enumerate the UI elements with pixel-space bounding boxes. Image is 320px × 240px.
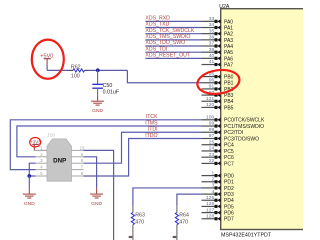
svg-text:0.01uF: 0.01uF — [103, 90, 120, 96]
svg-text:R62: R62 — [71, 64, 81, 70]
svg-text:MSP432E401YTPDT: MSP432E401YTPDT — [221, 233, 272, 239]
svg-text:PA2: PA2 — [224, 32, 233, 38]
svg-text:PA3: PA3 — [224, 38, 233, 44]
svg-text:PC5: PC5 — [224, 149, 234, 155]
svg-text:PD6: PD6 — [224, 211, 234, 217]
svg-text:PC4: PC4 — [224, 143, 234, 149]
svg-text:127: 127 — [206, 207, 214, 213]
svg-text:J10: J10 — [47, 133, 55, 139]
svg-text:PB5: PB5 — [224, 105, 234, 111]
svg-text:PD7: PD7 — [224, 217, 234, 223]
svg-text:PA6: PA6 — [224, 56, 233, 62]
svg-text:4: 4 — [211, 189, 214, 195]
svg-text:22: 22 — [209, 158, 215, 164]
svg-text:PC6: PC6 — [224, 155, 234, 161]
svg-text:GND: GND — [24, 201, 35, 207]
svg-text:120: 120 — [206, 102, 214, 108]
svg-text:PC7: PC7 — [224, 161, 234, 167]
svg-text:XDS_TDO_SWO: XDS_TDO_SWO — [145, 40, 185, 46]
svg-text:XDS_TCK_SWDCLK: XDS_TCK_SWDCLK — [145, 28, 195, 34]
svg-text:98: 98 — [209, 127, 215, 133]
svg-text:XDS_RXD: XDS_RXD — [145, 15, 170, 21]
svg-text:PD1: PD1 — [224, 180, 234, 186]
svg-text:470: 470 — [179, 220, 188, 226]
svg-text:PA4: PA4 — [224, 44, 233, 50]
svg-text:38: 38 — [209, 47, 215, 53]
svg-text:126: 126 — [206, 201, 214, 207]
svg-text:GND: GND — [91, 201, 102, 207]
svg-text:R64: R64 — [179, 213, 189, 219]
svg-text:470: 470 — [135, 220, 144, 226]
svg-text:3: 3 — [211, 183, 214, 189]
svg-text:PD3: PD3 — [224, 192, 234, 198]
svg-text:PA0: PA0 — [224, 19, 233, 25]
svg-text:XDS_TXD: XDS_TXD — [145, 22, 169, 28]
svg-text:PA5: PA5 — [224, 50, 233, 56]
svg-text:PB0: PB0 — [224, 75, 234, 81]
svg-text:128: 128 — [206, 213, 214, 219]
svg-text:1: 1 — [211, 170, 214, 176]
svg-text:PD2: PD2 — [224, 186, 234, 192]
svg-text:R63: R63 — [135, 213, 145, 219]
svg-text:+3V3: +3V3 — [30, 140, 41, 145]
svg-text:33: 33 — [209, 16, 215, 22]
svg-text:121: 121 — [206, 96, 214, 102]
svg-text:PD4: PD4 — [224, 198, 234, 204]
svg-text:37: 37 — [209, 41, 215, 47]
svg-text:PD0: PD0 — [224, 174, 234, 180]
svg-text:PD5: PD5 — [224, 204, 234, 210]
svg-text:DNP: DNP — [53, 157, 66, 164]
svg-text:C50: C50 — [103, 83, 113, 89]
svg-text:XDS_TMS_SWDIO: XDS_TMS_SWDIO — [145, 34, 190, 40]
svg-text:99: 99 — [209, 121, 215, 127]
svg-text:36: 36 — [209, 35, 215, 41]
svg-text:U2A: U2A — [219, 4, 230, 10]
svg-text:XDS_TDI: XDS_TDI — [145, 46, 167, 52]
svg-text:PA1: PA1 — [224, 25, 233, 31]
svg-text:125: 125 — [206, 195, 214, 201]
svg-text:PC1/TMS/SWDIO: PC1/TMS/SWDIO — [224, 124, 264, 130]
svg-text:35: 35 — [209, 28, 215, 34]
svg-text:40: 40 — [209, 53, 215, 59]
svg-text:100: 100 — [71, 74, 80, 80]
svg-text:25: 25 — [209, 139, 215, 145]
svg-text:24: 24 — [209, 146, 215, 152]
svg-text:91: 91 — [209, 84, 215, 90]
svg-text:PC2/TDI: PC2/TDI — [224, 130, 243, 136]
svg-text:PA7: PA7 — [224, 62, 233, 68]
svg-text:PB4: PB4 — [224, 99, 234, 105]
svg-text:XDS_RESET_OUT: XDS_RESET_OUT — [145, 52, 191, 58]
svg-text:96: 96 — [209, 77, 215, 83]
svg-text:PC3/TDO/SWO: PC3/TDO/SWO — [224, 136, 259, 142]
svg-text:PC0/TCK/SWCLK: PC0/TCK/SWCLK — [224, 118, 265, 124]
svg-text:PB3: PB3 — [224, 93, 234, 99]
svg-text:GND: GND — [92, 108, 103, 114]
svg-text:2: 2 — [211, 176, 214, 182]
svg-text:23: 23 — [209, 152, 215, 158]
svg-text:97: 97 — [209, 133, 215, 139]
svg-text:PB1: PB1 — [224, 81, 234, 87]
svg-text:100: 100 — [206, 115, 214, 121]
svg-text:34: 34 — [209, 22, 215, 28]
svg-text:10: 10 — [80, 145, 85, 150]
svg-text:41: 41 — [209, 59, 215, 65]
svg-text:ITCK: ITCK — [146, 114, 158, 120]
